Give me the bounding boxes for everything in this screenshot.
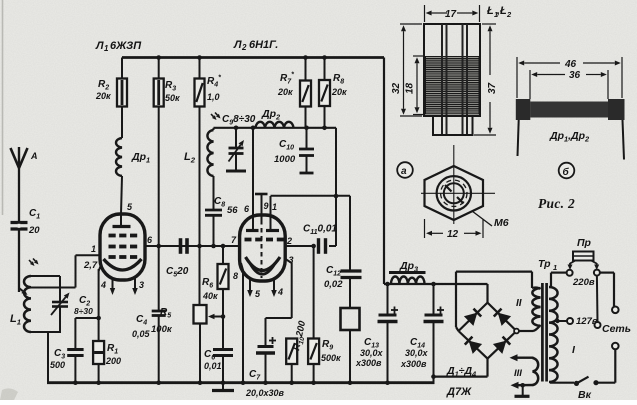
svg-text:М6: М6 xyxy=(494,217,509,229)
svg-text:50к: 50к xyxy=(165,93,180,103)
svg-text:1000: 1000 xyxy=(274,154,296,165)
svg-text:Тр: Тр xyxy=(538,258,551,270)
svg-text:8÷30: 8÷30 xyxy=(74,306,93,316)
svg-text:4: 4 xyxy=(100,280,106,290)
svg-text:Д7Ж: Д7Ж xyxy=(446,386,472,398)
svg-text:32: 32 xyxy=(391,82,402,94)
svg-text:III: III xyxy=(514,368,522,379)
svg-text:Вк: Вк xyxy=(578,389,592,400)
svg-text:6Н1Г.: 6Н1Г. xyxy=(249,39,278,51)
svg-text:2: 2 xyxy=(241,43,247,52)
svg-text:40к: 40к xyxy=(202,291,218,301)
svg-text:1: 1 xyxy=(91,244,96,254)
svg-text:20,0х30в: 20,0х30в xyxy=(245,388,285,398)
svg-text:37: 37 xyxy=(487,82,498,94)
svg-text:1: 1 xyxy=(104,44,109,53)
svg-text:8: 8 xyxy=(233,271,238,281)
svg-text:20к: 20к xyxy=(277,87,293,97)
svg-text:30,0х: 30,0х xyxy=(360,348,384,358)
svg-text:9: 9 xyxy=(264,201,269,211)
svg-text:4: 4 xyxy=(277,287,283,297)
svg-text:Д1÷Д4: Д1÷Д4 xyxy=(446,365,476,379)
svg-text:20к: 20к xyxy=(95,91,111,101)
svg-text:Л: Л xyxy=(233,39,242,51)
svg-text:А: А xyxy=(30,151,38,161)
svg-text:500: 500 xyxy=(50,360,65,370)
svg-text:С520: С520 xyxy=(166,266,189,279)
svg-text:200: 200 xyxy=(105,356,121,366)
svg-text:II: II xyxy=(516,298,522,309)
svg-text:2: 2 xyxy=(286,236,292,246)
svg-text:Л: Л xyxy=(95,40,104,52)
svg-text:17: 17 xyxy=(445,9,457,20)
svg-text:30,0х: 30,0х xyxy=(405,348,429,358)
svg-text:0,02: 0,02 xyxy=(324,279,343,290)
svg-text:б: б xyxy=(563,166,570,178)
svg-text:1: 1 xyxy=(272,202,277,212)
svg-text:1: 1 xyxy=(553,263,557,272)
svg-text:Рис. 2: Рис. 2 xyxy=(538,196,575,211)
svg-text:220в: 220в xyxy=(572,277,595,288)
svg-text:20: 20 xyxy=(28,225,40,236)
svg-text:Пр: Пр xyxy=(577,237,592,249)
svg-text:х300в: х300в xyxy=(355,358,382,368)
svg-text:1,0: 1,0 xyxy=(207,92,220,102)
svg-text:Др1,Др2: Др1,Др2 xyxy=(549,130,590,144)
svg-text:6ЖЗП: 6ЖЗП xyxy=(110,40,142,52)
svg-text:56: 56 xyxy=(227,205,238,216)
svg-text:0,05: 0,05 xyxy=(132,329,151,339)
svg-text:500к: 500к xyxy=(321,353,341,363)
svg-text:2,7: 2,7 xyxy=(83,260,98,271)
svg-text:Ł: Ł xyxy=(486,5,494,17)
svg-text:100к: 100к xyxy=(151,324,173,335)
svg-text:2: 2 xyxy=(506,10,512,19)
svg-text:Сеть: Сеть xyxy=(602,323,631,335)
svg-text:а: а xyxy=(401,166,407,177)
svg-text:х300в: х300в xyxy=(400,359,427,369)
svg-text:46: 46 xyxy=(564,59,577,70)
svg-text:С98÷30: С98÷30 xyxy=(222,114,256,127)
svg-text:12: 12 xyxy=(447,229,459,240)
svg-text:18: 18 xyxy=(405,82,416,94)
svg-text:3: 3 xyxy=(139,280,144,290)
svg-text:20к: 20к xyxy=(331,87,347,97)
svg-text:0,01: 0,01 xyxy=(204,361,222,371)
svg-text:С110,01: С110,01 xyxy=(303,224,337,237)
svg-text:36: 36 xyxy=(569,70,581,81)
svg-text:,Ł: ,Ł xyxy=(496,5,507,17)
